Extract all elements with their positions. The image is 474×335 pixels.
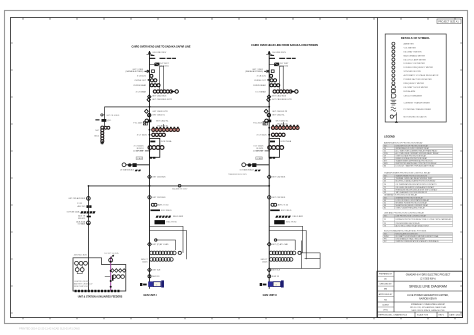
svg-text:86: 86 [384, 166, 386, 168]
svg-text:AMMETER: AMMETER [404, 43, 415, 46]
svg-text:EXC TR 90: EXC TR 90 [286, 222, 297, 224]
svg-text:X CT BEAR: X CT BEAR [136, 90, 147, 93]
svg-text:(SADAKA BYPASS): (SADAKA BYPASS) [126, 70, 144, 73]
svg-text:GKT (P) AT LOAD: GKT (P) AT LOAD [272, 243, 289, 246]
svg-text:SCALE: NTS: SCALE: NTS [417, 313, 429, 316]
svg-text:AVR 2 X 50: AVR 2 X 50 [278, 204, 289, 207]
unit II generator breaker diamond [267, 242, 271, 246]
svg-text:GKT N-E: GKT N-E [272, 270, 281, 272]
unit I metering circles pair [148, 79, 150, 81]
svg-text:LV STATION AUX: LV STATION AUX [120, 168, 135, 171]
unit II transformer T symbol [263, 122, 265, 125]
unit I generator CT chain upper [150, 251, 176, 255]
upper bus tie wire [105, 106, 270, 108]
svg-text:VOLTMETER: VOLTMETER [404, 47, 417, 49]
symbol: battery / PT plates [391, 100, 397, 105]
unit I neutral CT [148, 275, 151, 278]
unit II line isolator X switch [264, 70, 269, 73]
unit I brush hatches [156, 216, 171, 218]
svg-text:CURVE BEAR: CURVE BEAR [133, 84, 147, 87]
svg-text:1500/5: 1500/5 [142, 261, 148, 263]
svg-text:CLIENT: CLIENT [382, 304, 390, 306]
symbol: circuit breaker square [392, 89, 396, 92]
svg-text:MAX DEMAND METER: MAX DEMAND METER [404, 54, 426, 57]
title block bottom strip [415, 312, 448, 318]
unit I lower breaker diamond [148, 196, 151, 199]
station aux feeder drop wire [87, 186, 89, 291]
svg-text:POWER FACTOR KW METER: POWER FACTOR KW METER [404, 78, 433, 81]
aux board diamond feeders [111, 269, 126, 273]
grounding transformer HV rings [104, 126, 107, 129]
svg-text:GCB 2500A: GCB 2500A [280, 140, 291, 143]
unit II AVR device [271, 203, 274, 206]
svg-text:GKT CB 4 BUS: GKT CB 4 BUS [106, 115, 120, 117]
unit I cubicle AVR blob [150, 141, 155, 143]
symbol: bus alarm ellipse [391, 86, 395, 89]
svg-text:GKT CB2 BUS: GKT CB2 BUS [272, 197, 286, 199]
unit II bus diamond node [267, 175, 271, 179]
svg-text:LPGL: LPGL [383, 310, 388, 312]
svg-text:KILOWATT HOUR METER: KILOWATT HOUR METER [404, 86, 429, 89]
unit I neutral diamond [148, 268, 152, 272]
symbol: meter circle 10 [392, 78, 395, 81]
svg-text:(4)11: (4)11 [107, 120, 111, 122]
grounding transformer drop wire [104, 107, 106, 127]
unit II metering circles row of three [270, 84, 273, 87]
unit I overhead line dashed conductor [149, 58, 155, 59]
unit II neutral diamond [267, 268, 271, 272]
symbol: meter circle 9 [392, 74, 395, 77]
svg-text:DATE: 12/20/14: DATE: 12/20/14 [450, 313, 463, 316]
svg-text:CURVE OUT: CURVE OUT [254, 80, 267, 82]
svg-text:EXC TR 90: EXC TR 90 [167, 222, 178, 224]
unit I main bus wire [149, 51, 151, 282]
svg-text:CIRCUIT BREAKER: CIRCUIT BREAKER [404, 95, 423, 98]
svg-text:GKT CB5 AUX BUS: GKT CB5 AUX BUS [68, 197, 86, 200]
aux incomer DC link wire [110, 257, 112, 291]
symbol: CT D-shape [392, 94, 396, 98]
svg-text:(SADAKA BYPASS): (SADAKA BYPASS) [245, 70, 263, 73]
svg-text:NGR 33: NGR 33 [272, 276, 280, 278]
unit II generator CT chain upper [269, 251, 295, 255]
svg-text:FIELD BKR: FIELD BKR [293, 216, 304, 218]
unit II isolator diamond below tie [264, 109, 268, 113]
svg-text:CURRENT TRANSFORMER: CURRENT TRANSFORMER [404, 101, 431, 104]
svg-text:FIELD BKR: FIELD BKR [173, 216, 184, 218]
symbol: potential transformer coils [391, 107, 396, 111]
svg-text:ELECTROMAGNETIC RELAY MISC FIT: ELECTROMAGNETIC RELAY MISC FITTINGS [384, 229, 427, 232]
unit II metering circles pair [267, 79, 269, 81]
svg-text:11 KV LINE: 11 KV LINE [133, 151, 144, 153]
svg-text:GKT CB2 BUS: GKT CB2 BUS [152, 197, 166, 199]
unit II generator breaker cubicle box [269, 138, 279, 157]
svg-text:3RD FLOOR, 48TH AVENUE, MAIN R: 3RD FLOOR, 48TH AVENUE, MAIN ROAD [410, 306, 447, 309]
svg-text:AVR 2 X 50: AVR 2 X 50 [158, 204, 169, 207]
svg-text:AUX ISO: AUX ISO [78, 205, 86, 208]
unit I transformer T symbol [143, 122, 145, 125]
aux board feeder circles row 2 [75, 265, 84, 274]
station aux isolator blocks [87, 205, 89, 208]
svg-text:TRANSFORMER PROTECTION CONTROL: TRANSFORMER PROTECTION CONTROL RELAY [384, 171, 431, 174]
svg-text:LOCKOUT / MASTER TRIP AUXILIAR: LOCKOUT / MASTER TRIP AUXILIARY RELAY [396, 165, 436, 168]
unit I bus junction breaker diamonds [148, 95, 151, 99]
svg-text:O/H LINE 33KV: O/H LINE 33KV [152, 52, 167, 54]
svg-text:GCB 2500A: GCB 2500A [161, 140, 172, 143]
svg-text:1500/5: 1500/5 [262, 261, 268, 263]
sheet size label box top right [437, 19, 461, 24]
unit II neutral CT [268, 275, 271, 278]
grounding transformer breaker box [102, 119, 107, 122]
unit II line tap bar [270, 55, 274, 56]
svg-text:PREPARED BY: PREPARED BY [379, 273, 393, 276]
svg-text:81: 81 [384, 208, 386, 210]
unit I feedback loop wires [150, 226, 187, 259]
svg-text:GKT CB03 BUS KLTR: GKT CB03 BUS KLTR [272, 99, 292, 101]
unit II cubicle aux tick [265, 150, 270, 152]
lower bus tie wire [88, 185, 269, 187]
unit II cubicle bottom pads [269, 157, 272, 159]
svg-text:X CT 600/5: X CT 600/5 [137, 135, 148, 137]
symbol: meter circle 11 [392, 82, 395, 85]
svg-text:GWADAR-II HYDRO ELECTRIC PROJE: GWADAR-II HYDRO ELECTRIC PROJECT [406, 274, 451, 277]
svg-text:ABBREVIATION OF PROTECTION REL: ABBREVIATION OF PROTECTION RELAY [384, 141, 423, 144]
station aux breaker node [87, 197, 91, 201]
svg-text:APPROVED BY: APPROVED BY [379, 293, 393, 296]
svg-text:GKT CB02 KL: GKT CB02 KL [276, 121, 290, 123]
unit II bypass loop wires [279, 66, 283, 91]
svg-text:NAIROBI KENYA: NAIROBI KENYA [419, 298, 437, 301]
unit II CT chain short row [271, 133, 285, 136]
aux board circle feeders [105, 275, 125, 281]
unit I isolator diamond below tie [145, 109, 149, 113]
title block left column [393, 271, 395, 312]
svg-text:TRANSFER BUS 33KV: TRANSFER BUS 33KV [228, 173, 248, 176]
svg-text:CAIRO OVER HEAD LINE TO SADAKA: CAIRO OVER HEAD LINE TO SADAKA SAFAR LIN… [132, 44, 191, 48]
svg-text:SYNCHROSCOPE: SYNCHROSCOPE [404, 71, 422, 73]
unit I excitation dashes [151, 210, 161, 212]
symbol: meter circle 1 [392, 42, 395, 45]
svg-text:T%s 2009: T%s 2009 [133, 122, 143, 124]
svg-text:LV STATION AUX: LV STATION AUX [240, 168, 255, 171]
svg-text:NGR 33: NGR 33 [152, 276, 160, 278]
svg-text:LUCE POWER GENERATION LIMITED,: LUCE POWER GENERATION LIMITED, [407, 294, 449, 297]
svg-text:GKT CB2 BUS: GKT CB2 BUS [272, 177, 286, 179]
svg-text:OVER / UNDER FREQUENCY RELAY: OVER / UNDER FREQUENCY RELAY [396, 207, 426, 210]
svg-text:EXC FIELD: EXC FIELD [161, 210, 172, 212]
right column separator line [377, 18, 379, 318]
symbol: motorized isolator [390, 115, 393, 118]
svg-text:GEN UNIT-II: GEN UNIT-II [263, 294, 277, 297]
aux board feeder circles row 1 [75, 261, 88, 265]
symbol: meter circle 3 [392, 50, 395, 53]
unit II excitation dashes [270, 210, 280, 212]
svg-text:SADAKA TIE 33KV: SADAKA TIE 33KV [172, 187, 188, 190]
unit II generator set [260, 283, 262, 286]
svg-text:X CB (CT): X CB (CT) [257, 76, 267, 78]
svg-text:DETAILS OF SYMBOL: DETAILS OF SYMBOL [401, 36, 430, 40]
svg-text:LEGEND: LEGEND [384, 135, 395, 139]
svg-text:FIRE PUMP 45KW: FIRE PUMP 45KW [74, 286, 89, 288]
unit I cubicle aux tick [145, 150, 150, 152]
svg-text:GKT (P) AT LOAD: GKT (P) AT LOAD [152, 243, 169, 246]
details of symbol legend box [385, 34, 446, 122]
symbol: meter circle 4 [392, 54, 395, 57]
svg-text:T%s 2009: T%s 2009 [253, 122, 263, 124]
unit I incoming line terminal [147, 51, 153, 55]
svg-text:KILOWATT METER: KILOWATT METER [404, 50, 422, 53]
svg-text:LINE AND PROTECTION CONTROL RE: LINE AND PROTECTION CONTROL RELAY [384, 211, 425, 214]
unit II cubicle CT rings [268, 146, 284, 150]
unit I bus diamond node [148, 175, 152, 179]
svg-text:STATION COMMUNICATION SCADA RT: STATION COMMUNICATION SCADA RTU INTERFAC… [396, 240, 440, 243]
svg-text:AUTO RECLOSING RELAY SINGLE SH: AUTO RECLOSING RELAY SINGLE SHOT [396, 224, 430, 227]
grounding transformer winding coil [101, 126, 104, 143]
symbol legend label texts [404, 43, 439, 119]
svg-text:MM: MM [384, 289, 388, 291]
svg-text:EXC FIELD: EXC FIELD [281, 210, 292, 212]
unit I cubicle CT rings [148, 146, 164, 150]
svg-text:GKT CB02 BUS: GKT CB02 BUS [272, 96, 287, 98]
unit I metering circles row of three [150, 84, 153, 87]
title block row lines [377, 281, 463, 312]
svg-text:21: 21 [384, 219, 386, 221]
tie wire node [178, 184, 181, 187]
svg-text:11 KV LINE: 11 KV LINE [253, 151, 264, 153]
unit II step-up transformer blob [274, 63, 279, 67]
symbol: meter circle 7 [392, 66, 395, 69]
svg-text:PROJECT SIZE A1: PROJECT SIZE A1 [438, 21, 459, 24]
grounding transformer earth tip [101, 141, 104, 144]
svg-text:GKT N-E: GKT N-E [152, 270, 161, 272]
svg-text:REV:1: REV:1 [439, 314, 444, 316]
unit II incoming line terminal [266, 51, 272, 55]
svg-text:NEW OFFICE SPACE, KARACHI-7580: NEW OFFICE SPACE, KARACHI-7580 [412, 309, 445, 312]
svg-text:UNIT & STATION AUXILIARIES FEE: UNIT & STATION AUXILIARIES FEEDERS [78, 295, 123, 298]
svg-text:GKT CB02 KL: GKT CB02 KL [152, 115, 166, 117]
unit I line isolator X switch [145, 70, 150, 73]
svg-text:DG SET 100 KVA: DG SET 100 KVA [104, 252, 119, 255]
unit II CT chain row [273, 90, 292, 93]
unit I AVR device [151, 203, 154, 206]
svg-text:LV FUSE 200A: LV FUSE 200A [67, 211, 80, 214]
svg-text:GKT CB03 BUS KLTR: GKT CB03 BUS KLTR [152, 99, 172, 101]
aux distribution board outline [73, 258, 126, 291]
aux incomer DC link nodes [110, 261, 112, 288]
svg-text:GKT CB02 KL: GKT CB02 KL [272, 115, 286, 117]
svg-text:CHECKED BY: CHECKED BY [379, 284, 392, 286]
unit I CT chain row [153, 90, 172, 93]
symbol: meter circle 6 [392, 62, 395, 65]
svg-text:SINGLE LINE DIAGRAM: SINGLE LINE DIAGRAM [409, 284, 447, 288]
unit I generator set [140, 283, 142, 286]
svg-text:REPRODUCED - DRAWING N: A: REPRODUCED - DRAWING N: A [379, 313, 408, 316]
svg-text:GKT CB03 KLTR: GKT CB03 KLTR [152, 111, 168, 113]
grounding transformer disconnect circle [101, 114, 103, 116]
svg-text:2 X 33: 2 X 33 [77, 203, 82, 205]
unit I CB meter circle [150, 74, 153, 77]
symbol: meter circle 5 [392, 58, 395, 61]
unit I cubicle bottom pads [150, 157, 153, 159]
unit II CB meter circle [270, 74, 273, 77]
unit II cubicle AVR blob [270, 141, 275, 143]
svg-text:POTENTIAL TRANSFORMER: POTENTIAL TRANSFORMER [404, 108, 432, 111]
svg-text:STRATEGIC CONSULTING GROUP: STRATEGIC CONSULTING GROUP [411, 303, 446, 306]
unit I feeder breaker assembly [148, 120, 152, 123]
unit II outer CT loop return wires [269, 241, 320, 269]
unit II brush hatches [275, 216, 291, 218]
svg-text:GEN UNIT-I: GEN UNIT-I [143, 294, 157, 297]
aux incomer changeover switch [109, 258, 113, 262]
station aux transformer block [87, 216, 91, 218]
title block outline [377, 271, 463, 317]
svg-text:OIL TEMPERATURE INDICATOR WITH: OIL TEMPERATURE INDICATOR WITH CONTACTS [396, 183, 438, 186]
svg-text:X CT BEAR: X CT BEAR [255, 90, 266, 93]
unit II lower breaker diamond [268, 196, 271, 199]
svg-text:DOUBLE VOLTMETER: DOUBLE VOLTMETER [404, 63, 426, 65]
unit II generator CT chain lower [269, 258, 293, 262]
station aux CB symbol [87, 221, 91, 225]
svg-text:GKT CB02 KL: GKT CB02 KL [156, 121, 170, 123]
svg-text:AUTOMATIC VOLTAGE REGULATOR: AUTOMATIC VOLTAGE REGULATOR [404, 74, 439, 77]
svg-text:CURVE OUT: CURVE OUT [134, 80, 147, 82]
unit II feedback loop wires [269, 226, 306, 259]
svg-text:(2 X 500 KW+): (2 X 500 KW+) [420, 278, 435, 280]
svg-text:FREQUENCY METER: FREQUENCY METER [404, 83, 425, 85]
svg-text:79: 79 [384, 225, 386, 227]
unit I generator breaker cubicle box [149, 138, 159, 157]
svg-text:KILOVOLT AMP METER: KILOVOLT AMP METER [404, 58, 427, 61]
bus tie junction dots [149, 106, 151, 108]
symbol: meter circle 2 [392, 46, 395, 49]
svg-text:LV AUX: LV AUX [256, 157, 263, 160]
svg-text:GKT CB2 BUS: GKT CB2 BUS [152, 177, 166, 179]
svg-text:26: 26 [384, 184, 386, 186]
svg-text:DISTANCE PROTECTION RELAY ZONE: DISTANCE PROTECTION RELAY ZONE 1 / ZONE … [396, 218, 453, 221]
svg-text:LV AUX: LV AUX [137, 157, 144, 160]
svg-text:33/0.415: 33/0.415 [78, 218, 85, 220]
unit I step-up transformer blob [154, 63, 159, 67]
unit II feeder breaker assembly [268, 120, 272, 123]
svg-text:LV MAIN: LV MAIN [78, 223, 86, 226]
unit I generator breaker diamond [148, 242, 152, 246]
unit II excitation transformer box [274, 220, 285, 224]
svg-text:415V MCC BUS: 415V MCC BUS [74, 254, 88, 256]
svg-text:O/H LINE 33KV: O/H LINE 33KV [272, 52, 287, 54]
station aux fuse hatches [80, 211, 95, 213]
unit I CT chain short row [152, 133, 166, 136]
aux board terminal strip [75, 290, 120, 292]
svg-text:33/0.4: 33/0.4 [94, 136, 99, 138]
unit I excitation transformer box [155, 220, 166, 224]
svg-text:GKT CB03 KLTR: GKT CB03 KLTR [272, 111, 288, 113]
svg-text:CAIRO OVER HEAD LINE FROM SADA: CAIRO OVER HEAD LINE FROM SADAKA-II RECT… [251, 43, 318, 47]
svg-text:X CT 600/5: X CT 600/5 [257, 135, 268, 137]
svg-text:DOUBLE FREQUENCY METER: DOUBLE FREQUENCY METER [404, 67, 434, 69]
svg-text:PRINTED 2014-12-20 11:42 ACAD: PRINTED 2014-12-20 11:42 ACAD SLD-01-R1.… [19, 326, 80, 330]
symbol: meter circle 8 [392, 70, 395, 73]
unit I generator CT chain lower [150, 258, 174, 262]
unit II bus junction breaker diamonds [267, 95, 270, 99]
svg-text:BUS ALARM: BUS ALARM [404, 90, 416, 93]
unit II overhead line dashed conductor [269, 58, 275, 59]
svg-text:GKT CB02 BUS: GKT CB02 BUS [152, 96, 167, 98]
unit I bypass loop wires [160, 66, 164, 91]
svg-text:GENERATOR PROTECTION RELAY: GENERATOR PROTECTION RELAY [384, 193, 418, 196]
unit I line tap bar [151, 55, 155, 56]
unit II main bus wire [268, 51, 270, 282]
svg-text:MOTORIZED ISOLATOR: MOTORIZED ISOLATOR [404, 116, 427, 119]
svg-text:CURVE BEAR: CURVE BEAR [253, 84, 267, 87]
svg-text:X CB (CT): X CB (CT) [137, 76, 147, 78]
